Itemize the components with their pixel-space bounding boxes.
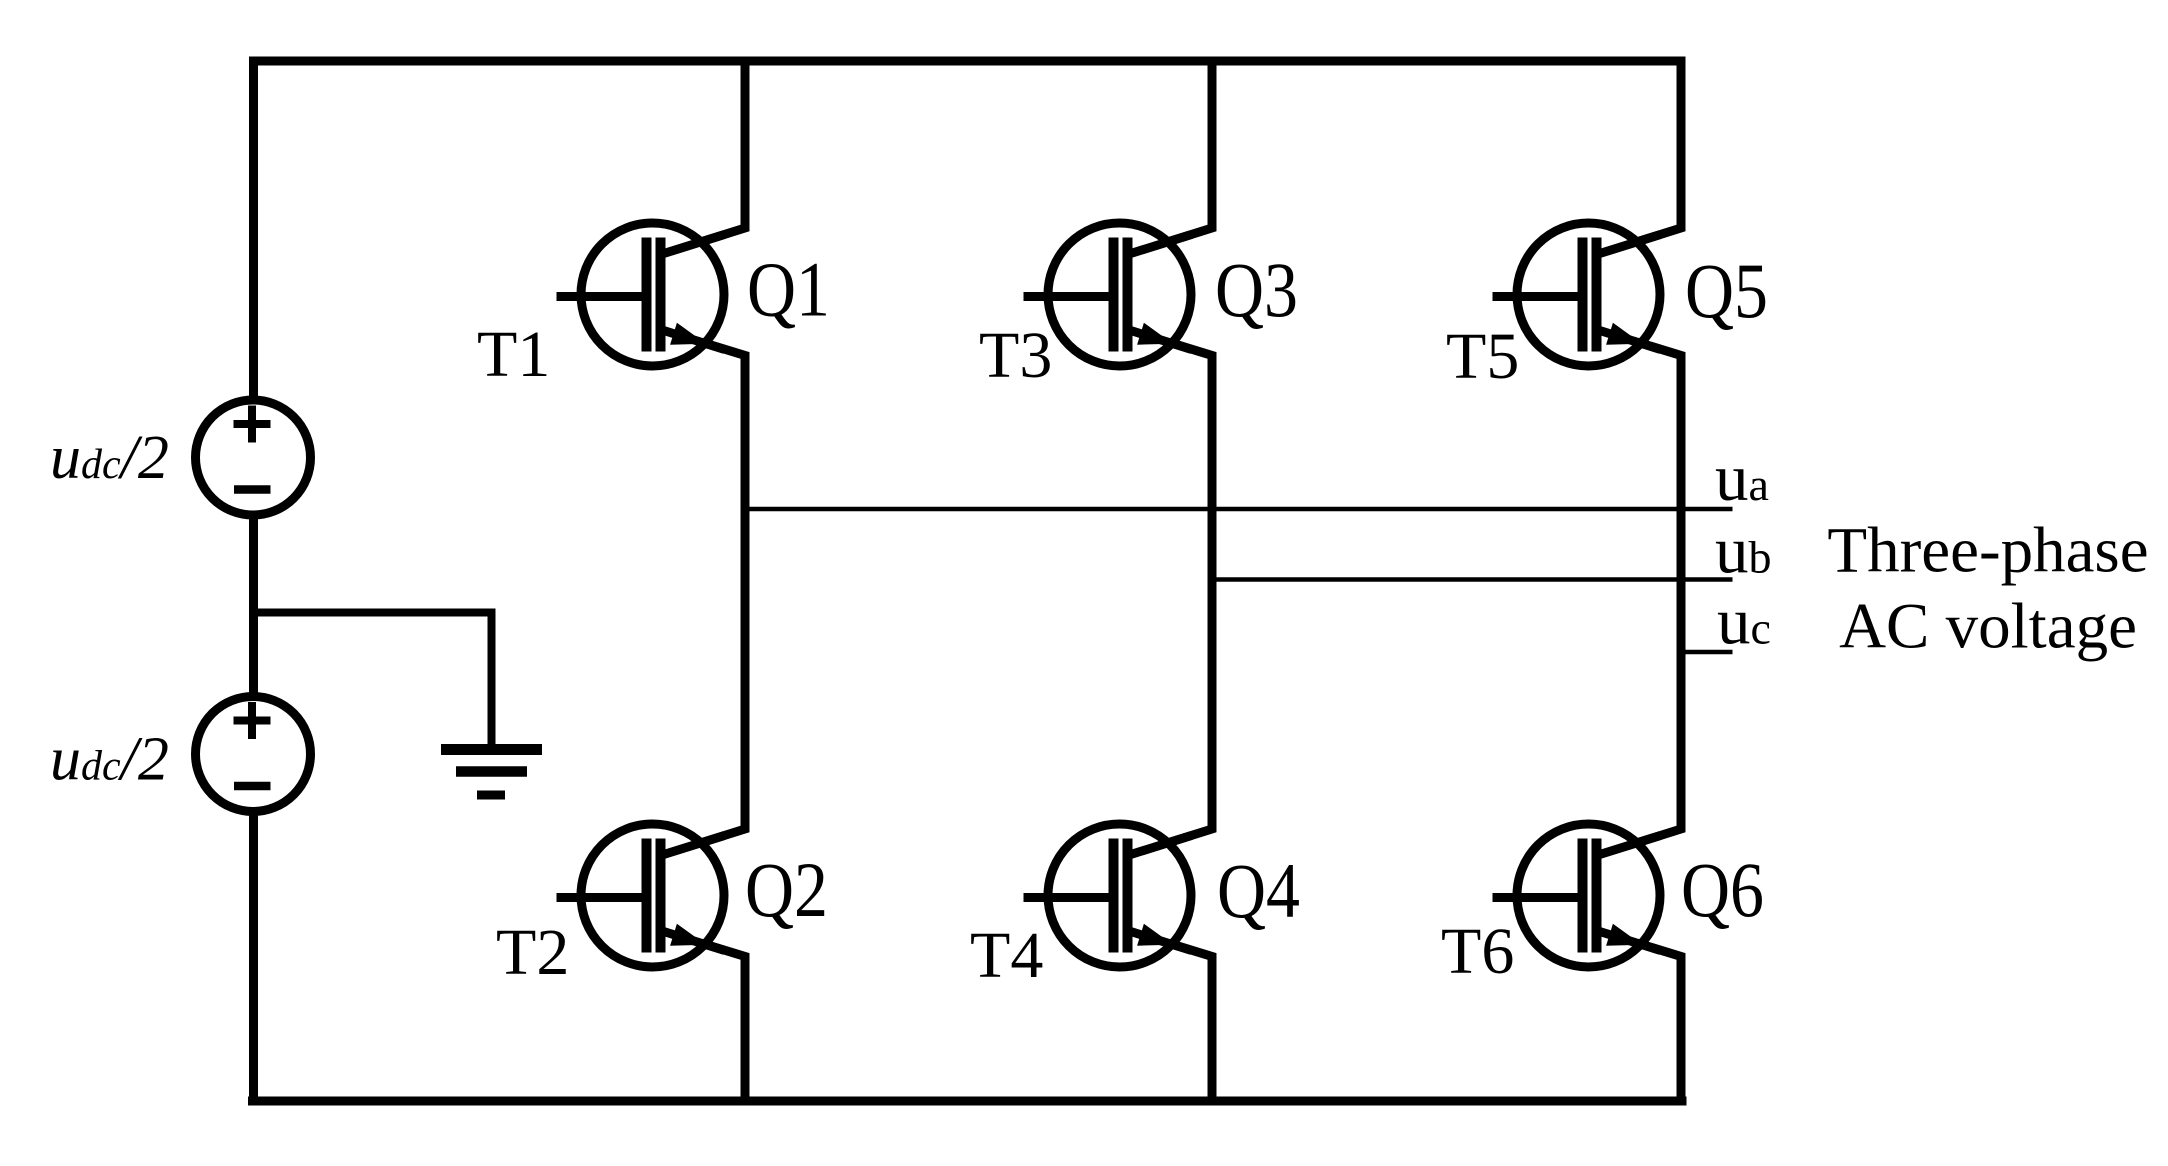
- wire leg A lower (Q2 emitter to bottom bus): [661, 931, 746, 1102]
- transistor Q4 (IGBT T4): [1024, 824, 1192, 967]
- svg-text:T5: T5: [1446, 320, 1519, 393]
- svg-text:Q4: Q4: [1217, 847, 1300, 934]
- transistor Q5 (IGBT T5): [1493, 223, 1661, 366]
- wire leg B middle (Q3 emitter to Q4 collector, node b): [1128, 330, 1213, 856]
- svg-text:Q2: Q2: [745, 846, 828, 933]
- svg-text:Q1: Q1: [747, 246, 830, 333]
- svg-text:Three-phase: Three-phase: [1827, 515, 2148, 587]
- transistor Q1 (IGBT T1): [557, 223, 725, 366]
- wire node a output (ua): [745, 507, 1733, 512]
- transistor Q6 (IGBT T6): [1493, 824, 1661, 967]
- ground: [441, 750, 542, 796]
- wire left rail: [249, 57, 258, 1102]
- wire node c stub (uc): [1681, 650, 1733, 655]
- svg-text:Q3: Q3: [1215, 246, 1298, 333]
- svg-text:T4: T4: [970, 919, 1043, 992]
- voltage source V2 udc/2: [196, 697, 311, 812]
- svg-text:udc/2: udc/2: [50, 424, 169, 492]
- svg-text:AC voltage: AC voltage: [1839, 591, 2137, 663]
- wire leg C lower (Q6 emitter to bottom bus): [1597, 931, 1682, 1102]
- svg-text:ua: ua: [1715, 441, 1769, 515]
- svg-text:T1: T1: [477, 318, 550, 391]
- svg-text:T3: T3: [979, 319, 1052, 392]
- wire leg C middle (Q5 emitter to Q6 collector, node c): [1597, 330, 1682, 856]
- wire leg A middle (Q1 emitter to Q2 collector, node a): [661, 330, 746, 856]
- wire node b output (ub): [1212, 577, 1733, 582]
- svg-text:T6: T6: [1441, 915, 1514, 988]
- svg-text:udc/2: udc/2: [50, 726, 169, 794]
- voltage source V1 udc/2: [196, 400, 311, 515]
- svg-text:ub: ub: [1715, 514, 1772, 588]
- wire leg C upper (bus to Q5 collector): [1597, 57, 1682, 255]
- svg-text:T2: T2: [496, 916, 569, 989]
- svg-text:Q6: Q6: [1681, 846, 1764, 933]
- wire leg B upper (bus to Q3 collector): [1128, 57, 1213, 255]
- wire leg A upper (bus to Q1 collector): [661, 57, 746, 255]
- transistor Q2 (IGBT T2): [557, 824, 725, 967]
- svg-text:uc: uc: [1717, 585, 1771, 659]
- wire leg B lower (Q4 emitter to bottom bus): [1128, 931, 1213, 1102]
- svg-text:Q5: Q5: [1685, 247, 1768, 334]
- bottom bus (DC- rail): [248, 1097, 1687, 1106]
- top bus (DC+ rail): [249, 57, 1686, 66]
- wire midpoint to ground: [254, 613, 492, 745]
- transistor Q3 (IGBT T3): [1024, 223, 1192, 366]
